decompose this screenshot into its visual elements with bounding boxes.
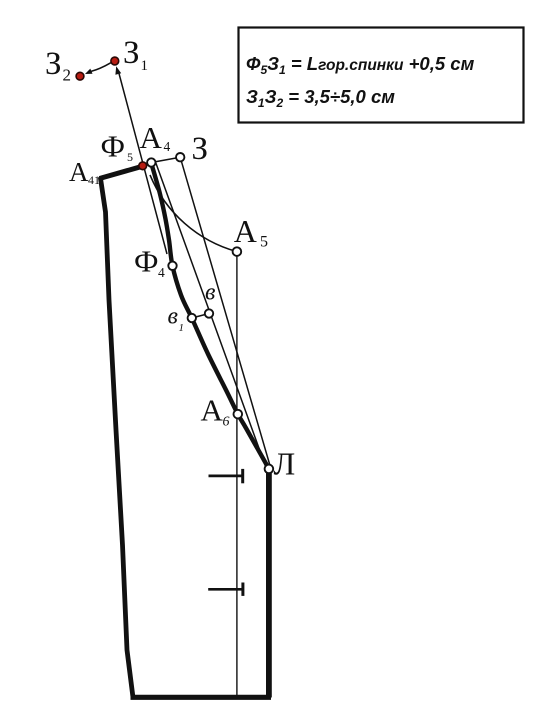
svg-text:А: А <box>234 213 257 249</box>
svg-text:З1З2 = 3,5÷5,0 см: З1З2 = 3,5÷5,0 см <box>246 86 395 110</box>
svg-text:2: 2 <box>63 66 72 85</box>
svg-text:А: А <box>201 393 224 428</box>
svg-text:5: 5 <box>127 150 133 164</box>
svg-text:6: 6 <box>223 415 230 430</box>
svg-text:4: 4 <box>158 265 165 280</box>
svg-text:1: 1 <box>141 58 149 74</box>
svg-text:З: З <box>123 35 140 71</box>
svg-text:в: в <box>168 304 178 330</box>
svg-text:А: А <box>140 120 163 155</box>
svg-text:41: 41 <box>88 173 100 187</box>
svg-text:А: А <box>69 157 89 187</box>
svg-text:1: 1 <box>179 322 185 334</box>
svg-text:Л: Л <box>274 446 296 482</box>
svg-text:Ф: Ф <box>134 244 159 279</box>
svg-text:З: З <box>45 46 62 82</box>
svg-text:З: З <box>192 131 209 167</box>
svg-text:5: 5 <box>260 234 268 251</box>
svg-text:4: 4 <box>164 139 171 154</box>
svg-text:в: в <box>205 280 215 306</box>
svg-text:Ф: Ф <box>101 129 126 164</box>
